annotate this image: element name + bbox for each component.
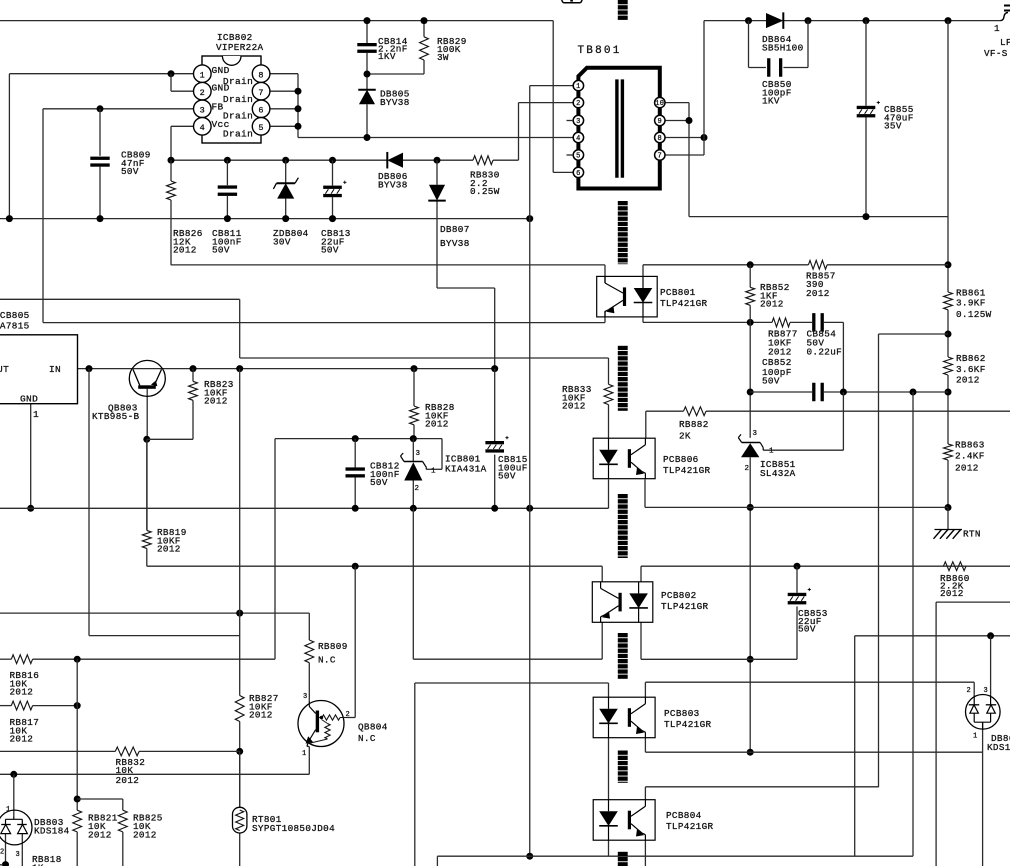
wire RB882 line y411	[646, 411, 1010, 438]
diode DB803	[0, 806, 70, 859]
svg-text:3: 3	[303, 693, 308, 701]
resistor RB829	[420, 36, 467, 63]
svg-text:ICB805: ICB805	[0, 310, 30, 321]
svg-text:SL432A: SL432A	[760, 468, 796, 479]
svg-text:2012: 2012	[88, 829, 112, 840]
wire CB813 leads	[332, 160, 334, 218]
svg-text:3: 3	[16, 851, 21, 859]
wire drain pins	[270, 74, 302, 138]
svg-text:4: 4	[200, 123, 205, 133]
thermistor RT801	[233, 807, 336, 834]
svg-text:2012: 2012	[133, 829, 157, 840]
diode DB866	[966, 687, 1010, 753]
wire sec gnd right y507	[645, 334, 948, 507]
optocoupler PCB801	[597, 276, 708, 317]
svg-text:GND: GND	[20, 393, 38, 404]
svg-text:3: 3	[200, 106, 205, 116]
svg-text:6: 6	[576, 170, 581, 178]
svg-text:1: 1	[769, 448, 774, 456]
svg-text:1KV: 1KV	[378, 51, 396, 62]
wire rail x750	[747, 265, 754, 756]
wire line y613	[0, 610, 309, 640]
ic ICB851	[738, 430, 795, 479]
wire CB815 leads	[494, 369, 496, 509]
wire RB823 top lead	[192, 369, 194, 382]
wire RT801 leads	[239, 751, 241, 807]
svg-text:50V: 50V	[498, 471, 516, 482]
wire collector line y265	[171, 265, 605, 283]
svg-text:2012: 2012	[10, 687, 34, 698]
svg-text:3: 3	[984, 687, 989, 695]
svg-text:Drain: Drain	[223, 111, 253, 122]
svg-text:50V: 50V	[762, 376, 780, 387]
svg-text:2012: 2012	[956, 375, 980, 386]
resistor RB827	[235, 693, 278, 722]
transistor QB804	[298, 693, 388, 758]
wire line A	[0, 299, 609, 358]
resistor RB818	[32, 854, 62, 866]
capacitor CB812	[346, 461, 400, 489]
svg-text:2.4KF: 2.4KF	[955, 451, 985, 462]
capacitor CB814	[357, 36, 407, 62]
svg-text:30V: 30V	[273, 236, 291, 247]
barrier isolation dashes	[618, 0, 628, 866]
svg-text:RB863: RB863	[955, 440, 985, 451]
wire FB line	[43, 105, 194, 322]
wire DB803 bottom leads	[2, 834, 22, 866]
wire IN line	[78, 365, 499, 372]
resistor RB832	[115, 747, 145, 786]
wire RB816 bus y659	[0, 656, 275, 663]
ic ICB801	[401, 450, 487, 493]
diode DB864	[762, 12, 804, 53]
resistor RB828	[410, 402, 455, 430]
wire x878 drop	[878, 334, 880, 787]
svg-text:2012: 2012	[940, 588, 964, 599]
svg-text:KA7815: KA7815	[0, 321, 30, 332]
svg-text:KDS184: KDS184	[987, 742, 1010, 753]
capacitor CB855	[857, 101, 914, 132]
svg-text:0.22uF: 0.22uF	[807, 347, 843, 358]
resistor RB862	[944, 353, 986, 386]
wire CB814 RB829 top	[364, 17, 428, 43]
svg-text:2: 2	[0, 849, 5, 857]
svg-text:1: 1	[576, 83, 581, 91]
svg-text:PCB801: PCB801	[660, 287, 696, 298]
svg-text:Drain: Drain	[223, 76, 253, 87]
svg-text:2: 2	[745, 465, 750, 473]
svg-text:N.C: N.C	[358, 733, 376, 744]
optocoupler PCB802	[592, 582, 708, 623]
resistor RB863	[944, 440, 985, 474]
wire led series link	[608, 738, 610, 800]
wire anode line y265	[643, 261, 948, 276]
svg-text:SYPGT10850JD04: SYPGT10850JD04	[252, 823, 335, 834]
wire TB801 pin1 drop	[526, 86, 573, 860]
svg-text:TLP421GR: TLP421GR	[661, 601, 709, 612]
svg-text:2012: 2012	[10, 734, 34, 745]
resistor RB857	[806, 260, 836, 299]
resistor RB816	[10, 655, 40, 698]
svg-text:PCB803: PCB803	[664, 708, 700, 719]
svg-text:2012: 2012	[955, 463, 979, 474]
wire PCB804 emitter	[644, 840, 646, 866]
capacitor CB809	[90, 150, 150, 178]
capacitor CB811	[212, 185, 242, 255]
diode DB807	[428, 185, 469, 249]
resistor RB817	[10, 701, 40, 744]
wire RB817 line	[0, 702, 81, 709]
wire sec rail x948	[945, 21, 952, 511]
earth triangle top	[562, 0, 583, 3]
svg-text:3.6KF: 3.6KF	[956, 364, 986, 375]
resistor RB830	[470, 156, 500, 197]
wire sec gnd bus y508	[0, 479, 609, 511]
svg-text:VF-S: VF-S	[984, 48, 1008, 59]
wire RB819 chain	[147, 439, 602, 582]
svg-text:RB862: RB862	[956, 353, 986, 364]
svg-text:2012: 2012	[157, 544, 181, 555]
svg-text:50V: 50V	[321, 245, 339, 256]
capacitor CB854	[807, 313, 843, 357]
svg-text:3: 3	[576, 118, 581, 126]
svg-text:TLP421GR: TLP421GR	[660, 298, 708, 309]
svg-text:2: 2	[576, 100, 581, 108]
svg-text:PCB802: PCB802	[661, 590, 697, 601]
svg-text:RB882: RB882	[679, 419, 709, 430]
ic ICB805	[0, 310, 78, 420]
svg-text:1: 1	[994, 23, 1000, 34]
wire emitter line y774	[0, 747, 309, 778]
wire DB866 pin3 lead	[990, 636, 992, 695]
capacitor CB813	[321, 181, 351, 256]
svg-text:8: 8	[258, 71, 263, 81]
resistor RB823	[189, 379, 234, 407]
svg-text:2012: 2012	[760, 299, 784, 310]
svg-text:50V: 50V	[121, 166, 139, 177]
svg-text:10: 10	[655, 100, 664, 108]
wire PCB802 led cathode	[641, 622, 750, 659]
wire primary gnd bus	[0, 215, 533, 222]
transistor QB803	[92, 360, 165, 422]
svg-text:KTB985-B: KTB985-B	[92, 411, 140, 422]
wire DB803 pin1 lead	[13, 774, 15, 816]
svg-text:7: 7	[258, 88, 263, 98]
svg-text:50V: 50V	[798, 624, 816, 635]
svg-text:1: 1	[33, 409, 39, 420]
wire RB828 leads	[413, 369, 415, 439]
zener ZDB804	[273, 178, 309, 248]
svg-text:KIA431A: KIA431A	[445, 464, 487, 475]
wire cb812 line y438	[275, 435, 442, 469]
resistor RB821	[73, 810, 118, 840]
wire collector line y787	[645, 787, 878, 800]
svg-text:OUT: OUT	[0, 364, 9, 375]
wire QB804 base riser	[347, 566, 355, 717]
wire x89 riser	[89, 369, 240, 636]
capacitor CB850	[762, 58, 792, 106]
wire ICB801 leads	[412, 439, 414, 509]
wire drain line y137	[298, 104, 573, 141]
svg-text:3W: 3W	[437, 52, 449, 63]
optocoupler PCB804	[593, 800, 713, 841]
wire line y392	[750, 389, 948, 396]
svg-text:2012: 2012	[204, 396, 228, 407]
svg-text:DB807: DB807	[440, 224, 470, 235]
wire sec line y216	[689, 213, 948, 220]
resistor RB852	[746, 282, 790, 310]
connector LF801	[984, 6, 1010, 60]
svg-text:1: 1	[302, 750, 307, 758]
wire bottom line y856	[437, 840, 913, 866]
svg-text:TLP421GR: TLP421GR	[663, 465, 711, 476]
wire pin1 ICB802 net	[9, 70, 193, 218]
wire RB818 stub	[0, 864, 3, 866]
svg-text:TLP421GR: TLP421GR	[666, 821, 714, 832]
resistor RB861	[944, 288, 992, 321]
svg-text:VIPER22A: VIPER22A	[216, 42, 264, 53]
svg-text:PCB806: PCB806	[663, 454, 699, 465]
wire FB emitter line y322	[43, 311, 605, 323]
wire node DB805 top	[364, 53, 425, 90]
svg-text:RTN: RTN	[963, 529, 981, 540]
wire x913 drop	[912, 392, 914, 856]
ground RTN	[934, 529, 981, 540]
svg-text:1: 1	[200, 71, 205, 81]
wire emitter line y752	[645, 738, 982, 752]
svg-text:9: 9	[658, 118, 663, 126]
svg-text:2012: 2012	[249, 710, 273, 721]
svg-text:2: 2	[967, 687, 972, 695]
svg-text:BYV38: BYV38	[440, 238, 470, 249]
wire DB807 leads	[437, 160, 495, 369]
svg-text:2: 2	[200, 88, 205, 98]
wire QB803 base chain	[143, 389, 193, 530]
svg-text:2012: 2012	[173, 245, 197, 256]
wire x413 to PCB802 emitter	[413, 508, 602, 659]
wire RB827 chain	[236, 369, 243, 866]
wire RB832 line y751	[0, 750, 240, 752]
svg-text:TB801: TB801	[578, 45, 622, 57]
ic ICB802	[194, 32, 270, 143]
wire CB850 loop	[749, 21, 809, 68]
svg-text:FB: FB	[212, 101, 224, 112]
wire CB855 leads	[865, 21, 867, 217]
resistor RB877	[768, 318, 798, 358]
wire line y635	[855, 632, 1010, 855]
svg-text:SB5H100: SB5H100	[762, 42, 804, 53]
svg-text:1: 1	[973, 733, 978, 741]
wire DB866 pin1 lead	[982, 722, 984, 866]
svg-text:1K: 1K	[32, 862, 44, 866]
svg-text:2012: 2012	[562, 401, 586, 412]
resistor RB882	[679, 407, 709, 442]
svg-text:0.25W: 0.25W	[470, 186, 500, 197]
capacitor CB852	[762, 357, 824, 401]
wire sec top line	[704, 17, 1001, 24]
svg-text:5: 5	[258, 123, 263, 133]
svg-text:BYV38: BYV38	[380, 97, 410, 108]
svg-text:3: 3	[416, 450, 421, 458]
wire ICB851 ref	[763, 392, 843, 450]
wire RTN lead	[947, 508, 949, 530]
resistor RB860	[940, 562, 970, 599]
resistor RB833	[562, 384, 613, 412]
wire reg gnd lead	[27, 404, 34, 512]
resistor RB819	[142, 527, 186, 555]
optocoupler PCB806	[593, 438, 710, 479]
svg-text:1: 1	[431, 468, 436, 476]
svg-text:8: 8	[658, 135, 663, 143]
svg-text:Drain: Drain	[223, 128, 253, 139]
wire RB826 leads	[170, 160, 172, 265]
svg-text:IN: IN	[49, 364, 61, 375]
wire QB804 emitter lead	[307, 745, 309, 747]
wire CB853 leads	[750, 566, 797, 659]
wire led anode line y683	[415, 683, 609, 866]
svg-text:2: 2	[346, 711, 351, 719]
wire CB811 leads	[226, 160, 228, 218]
svg-text:TLP421GR: TLP421GR	[664, 719, 712, 730]
svg-text:2012: 2012	[116, 775, 140, 786]
wire RB809 chain	[308, 663, 310, 701]
wire sec line y566 right	[641, 563, 1010, 582]
svg-text:7: 7	[658, 153, 663, 161]
svg-text:1KV: 1KV	[762, 96, 780, 107]
svg-text:4: 4	[576, 135, 581, 143]
svg-text:35V: 35V	[884, 121, 902, 132]
wire RB833 leads	[608, 358, 610, 438]
wire primary top bus	[0, 21, 573, 173]
svg-text:2012: 2012	[768, 347, 792, 358]
svg-text:N.C: N.C	[318, 655, 336, 666]
wire Vcc rail y160	[168, 103, 574, 164]
svg-text:2012: 2012	[806, 288, 830, 299]
wire Vcc pin4	[171, 126, 194, 160]
svg-text:BYV38: BYV38	[378, 179, 408, 190]
svg-text:RB809: RB809	[318, 641, 348, 652]
svg-text:50V: 50V	[212, 245, 230, 256]
svg-text:3: 3	[753, 430, 758, 438]
wire x275 riser	[274, 439, 276, 660]
wire cathode line y322	[643, 317, 843, 392]
wire ZDB804 leads	[285, 160, 287, 218]
capacitor CB853	[788, 588, 828, 635]
svg-text:1: 1	[6, 806, 11, 814]
wire CB809 leads	[99, 109, 101, 219]
svg-text:3.9KF: 3.9KF	[956, 298, 986, 309]
wire TB801 sec pins	[665, 21, 708, 217]
transformer TB801	[567, 45, 666, 189]
svg-text:5: 5	[576, 153, 581, 161]
svg-text:QB804: QB804	[358, 722, 388, 733]
diode DB805	[358, 89, 409, 108]
svg-text:2K: 2K	[679, 431, 691, 442]
svg-text:PCB804: PCB804	[666, 810, 702, 821]
svg-text:0.125W: 0.125W	[956, 309, 992, 320]
resistor RB809	[305, 640, 348, 666]
capacitor CB815	[485, 436, 527, 482]
svg-text:2: 2	[415, 485, 420, 493]
resistor RB826	[167, 181, 203, 256]
svg-text:6: 6	[258, 106, 263, 116]
svg-text:KDS184: KDS184	[34, 825, 70, 836]
resistor RB825	[118, 810, 162, 840]
wire corner y602	[936, 602, 1010, 866]
svg-text:GND: GND	[212, 65, 230, 76]
svg-text:2012: 2012	[425, 419, 449, 430]
svg-text:LF: LF	[1000, 37, 1010, 48]
svg-text:50V: 50V	[370, 477, 388, 488]
wire collector line y682	[645, 682, 974, 697]
wire RB821 RB825 chain	[74, 659, 123, 866]
wire CB812 leads	[354, 439, 356, 509]
diode DB806	[378, 152, 408, 190]
svg-text:Drain: Drain	[223, 94, 253, 105]
optocoupler PCB803	[593, 697, 711, 738]
